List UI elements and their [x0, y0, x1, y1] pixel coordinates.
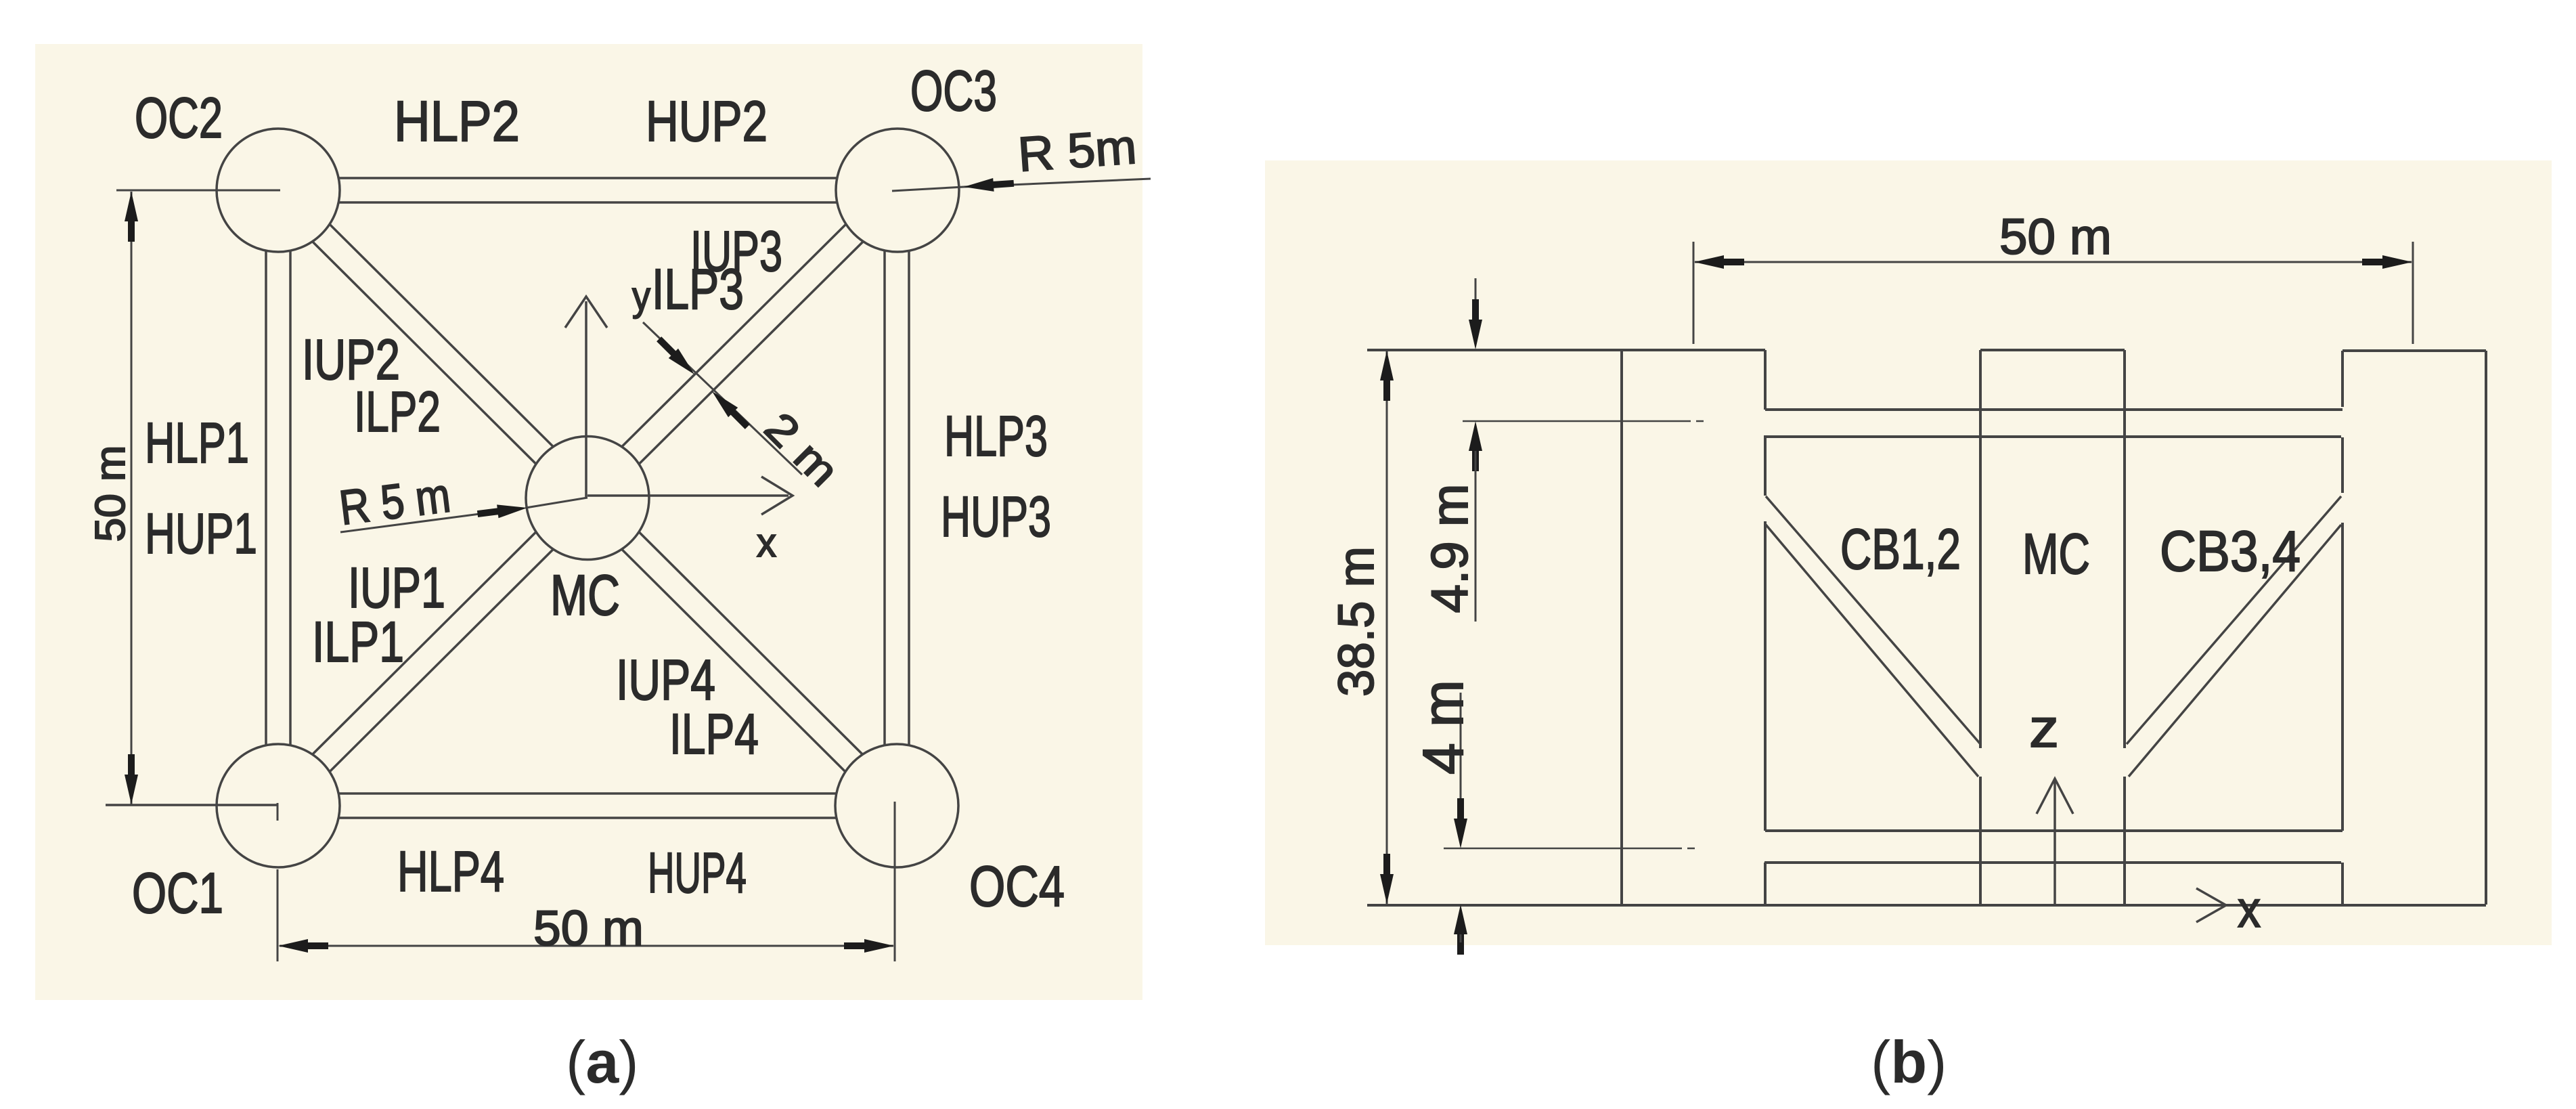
svg-text:ILP2: ILP2 [354, 380, 441, 443]
brace CB1,2 upper line [1766, 496, 1980, 744]
dim 4.9 line lower [1475, 451, 1477, 622]
dim 50m bottom ext right [894, 802, 896, 961]
svg-text:OC3: OC3 [910, 59, 997, 123]
svg-text:ILP3: ILP3 [652, 257, 744, 321]
right column left edge [2341, 351, 2344, 407]
svg-text:HLP2: HLP2 [394, 89, 520, 153]
waterline upper [1463, 420, 1691, 422]
leader R5m center line [340, 508, 521, 532]
pontoon HLP2/HUP2 top pair [278, 177, 897, 179]
dim 50m bottom arrow right [844, 939, 894, 953]
svg-text:z: z [2029, 698, 2059, 758]
dim 4.9 line upper [1475, 278, 1477, 320]
svg-text:4.9 m: 4.9 m [1421, 484, 1479, 613]
axis x b arrowhead [2196, 888, 2226, 922]
leader R5m OC3 arrow [964, 178, 1014, 192]
MC column right edge [2123, 350, 2126, 748]
dim 50m b ext left [1693, 242, 1695, 344]
axis z arrowhead [2037, 779, 2073, 814]
column MC circle [526, 437, 649, 560]
axis y arrowhead [565, 297, 607, 328]
svg-text:MC: MC [550, 563, 620, 627]
svg-text:HUP4: HUP4 [648, 841, 747, 905]
brace CB3,4 upper line [2127, 496, 2341, 744]
left column right edge [1764, 350, 1767, 410]
svg-text:ILP1: ILP1 [312, 610, 404, 674]
svg-text:HLP1: HLP1 [145, 411, 249, 475]
dim 4m arrow up [1454, 905, 1467, 955]
axis x line [587, 494, 789, 497]
axis x arrowhead [761, 477, 793, 515]
dim 50m bottom line [280, 945, 893, 947]
MC column left edge [1979, 350, 1982, 748]
pontoon IUP4/ILP4 diagonal pair [596, 490, 906, 797]
dim 50m b arrow right [2362, 255, 2412, 269]
MC column top edge [1980, 349, 2125, 351]
pontoon IUP2/ILP2 diagonal pair [269, 199, 579, 507]
leader R5m OC3 line [964, 179, 1151, 187]
svg-text:(b): (b) [1871, 1028, 1947, 1095]
dim 4.9 arrow down [1469, 299, 1482, 349]
dim 4m line upper [1460, 693, 1462, 819]
dim 2m arrow lower [712, 391, 750, 429]
svg-text:CB3,4: CB3,4 [2160, 519, 2301, 583]
pontoon HLP1/HUP1 left pair [265, 190, 267, 806]
svg-text:50 m: 50 m [87, 445, 134, 542]
svg-text:HUP3: HUP3 [941, 485, 1051, 548]
dim 38.5 line [1386, 351, 1388, 904]
dim 50m b arrow left [1694, 255, 1744, 269]
bottom pontoon band lower line [1764, 861, 2341, 864]
dim 4m arrow down [1454, 798, 1467, 848]
panel (a) background [35, 44, 1142, 1000]
right column top edge [2342, 349, 2486, 352]
svg-text:HLP3: HLP3 [944, 404, 1048, 468]
pontoon IUP1/ILP1 diagonal pair [287, 506, 596, 814]
svg-text:OC2: OC2 [135, 86, 223, 150]
svg-text:(a): (a) [566, 1028, 639, 1095]
svg-text:HUP1: HUP1 [145, 502, 257, 565]
dim 38.5 arrow up [1380, 351, 1394, 401]
left column left edge [1620, 349, 1623, 905]
dim 50m left line [131, 192, 133, 804]
svg-text:50 m: 50 m [1999, 209, 2112, 265]
waterline lower [1444, 848, 1682, 850]
dim 50m b ext right [2412, 242, 2414, 344]
svg-text:R 5m: R 5m [1017, 120, 1138, 182]
svg-text:y: y [632, 274, 650, 319]
pontoon HLP3/HUP3 right pair [883, 190, 886, 806]
dim 50m left arrow down [125, 754, 138, 804]
top pontoon band lower line [1764, 435, 2341, 438]
svg-text:MC: MC [2022, 522, 2090, 586]
svg-text:50 m: 50 m [533, 901, 644, 956]
dim 50m bottom arrow left [278, 939, 328, 953]
deck line left column [1367, 349, 1765, 351]
pontoon HLP4/HUP4 bottom pair [278, 792, 897, 795]
panel (b) background [1265, 160, 2552, 945]
svg-text:HUP2: HUP2 [646, 89, 768, 153]
brace CB3,4 lower line [2129, 525, 2341, 777]
leader R5m center arrow [477, 504, 527, 518]
column OC3 circle [836, 129, 959, 252]
bottom pontoon band upper line [1765, 829, 2342, 832]
baseline keel line [1367, 904, 2486, 907]
dim 50m b line [1695, 261, 2412, 263]
svg-text:x: x [757, 520, 776, 565]
dim 2m leader [643, 322, 802, 475]
column OC4 circle [835, 744, 958, 867]
right column right edge [2485, 351, 2487, 905]
dim 4.9 arrow up [1469, 421, 1482, 471]
pontoon IUP3/ILP3 diagonal pair [579, 181, 889, 490]
dim 50m bottom ext left [277, 869, 279, 961]
center mark OC3 [892, 187, 964, 191]
svg-text:OC4: OC4 [969, 854, 1065, 918]
svg-text:38.5 m: 38.5 m [1328, 546, 1384, 697]
svg-text:ILP4: ILP4 [669, 702, 759, 766]
svg-text:HLP4: HLP4 [397, 840, 504, 903]
svg-text:x: x [2238, 881, 2261, 938]
svg-text:4 m: 4 m [1411, 680, 1475, 775]
dim 50m left extension bottom [106, 804, 277, 806]
brace CB1,2 lower line [1766, 525, 1978, 777]
dim 50m left extension top [116, 190, 280, 192]
dim 2m arrow upper [657, 336, 694, 374]
top pontoon band upper line [1765, 408, 2342, 411]
axis z line [2053, 781, 2056, 905]
svg-text:OC1: OC1 [132, 861, 223, 925]
dim 38.5 arrow down [1380, 854, 1394, 904]
column OC2 circle [217, 129, 340, 252]
axis y line [585, 301, 587, 498]
dim 50m left arrow up [125, 192, 138, 242]
svg-text:CB1,2: CB1,2 [1840, 517, 1961, 581]
column OC1 circle [217, 744, 340, 867]
dim 4m line lower [1460, 934, 1462, 942]
